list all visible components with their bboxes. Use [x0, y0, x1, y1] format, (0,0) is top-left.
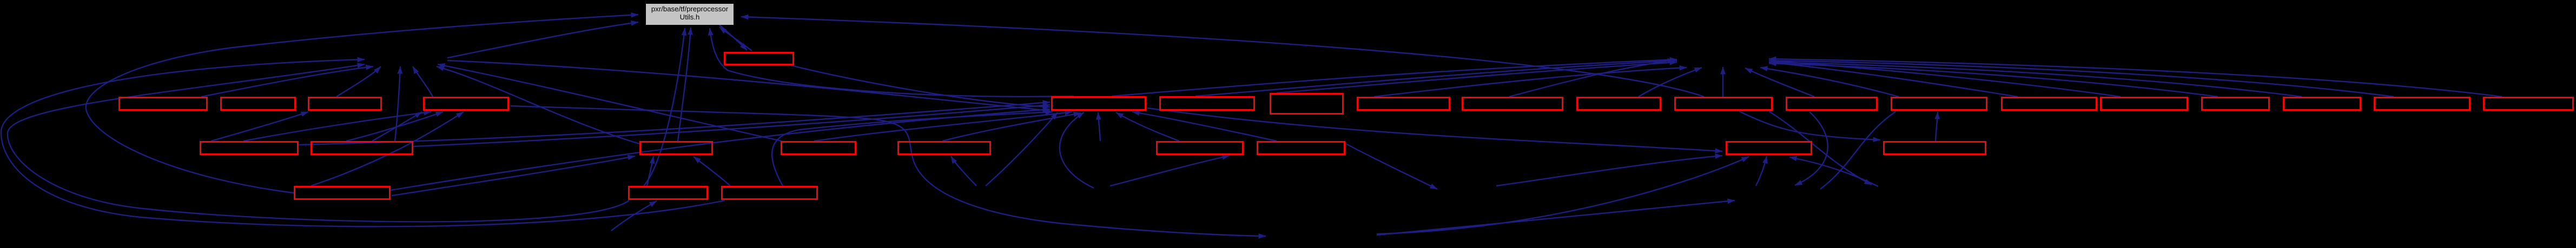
node R2e [899, 142, 990, 155]
node O [2101, 98, 2188, 110]
wire edge H8->R2h [1496, 156, 1722, 186]
node N [2002, 98, 2097, 110]
wire edge R2b->H1 [395, 66, 400, 141]
wire edge D->H1 [413, 66, 433, 97]
wire edge R2c->top [678, 28, 691, 141]
wire edge H5->H6 [1377, 200, 1735, 235]
wire edge H7->R2h [1789, 157, 1878, 186]
wire edge H6->R2h [1756, 156, 1767, 186]
wire edge E->R2h [1147, 108, 1722, 151]
node C [309, 98, 381, 110]
svg-text:Utils.h: Utils.h [680, 13, 700, 21]
node R2a [201, 142, 298, 155]
wire edge R2b->D [346, 112, 443, 141]
wire edge K->R2i [1739, 111, 1880, 140]
node B [221, 98, 295, 110]
node U1 pxr/base/tf/preprocessorUtils.h [646, 4, 734, 25]
wire edge M->arc [1820, 111, 1896, 189]
wire edge Q->H3 [1769, 62, 2302, 97]
wire edge R3b->H1 [8, 64, 629, 222]
node R3b [629, 187, 708, 199]
svg-text:pxr/base/tf/preprocessor: pxr/base/tf/preprocessor [651, 5, 729, 13]
wire edge R3b->R2c [647, 156, 653, 186]
node H [1358, 98, 1450, 110]
wire edge R2c->H1 [437, 66, 639, 144]
node Q [2284, 98, 2361, 110]
node R [2375, 98, 2470, 110]
wire edge C->H1 [336, 66, 381, 97]
node R2g [1258, 142, 1345, 155]
wire edge R2b->D2 [372, 112, 422, 141]
wire edge fl->R2c [392, 156, 635, 196]
node T [725, 53, 794, 65]
wire edge K->H3 [1722, 67, 1723, 97]
node D [424, 98, 508, 110]
wire edge P->H3 [1769, 63, 2218, 97]
wire edge R2d->H1 [438, 64, 782, 141]
wire edge L->H6 [1795, 112, 1828, 185]
node A [120, 98, 207, 110]
wire edge E->H3 [1112, 59, 1677, 96]
wire edge H10->E [1060, 112, 1094, 188]
node R2d [782, 142, 856, 155]
node F [1160, 97, 1254, 110]
node R2b [312, 142, 413, 155]
wire edge T->E [791, 65, 1050, 107]
node M [1892, 98, 1987, 110]
wire edge N->H3 [1769, 62, 2018, 97]
wire edge R3b->top [644, 28, 685, 186]
wire edge R3c->H1 [1, 59, 725, 226]
node R2f [1157, 142, 1243, 155]
wire edge L->H3 [1745, 68, 1814, 97]
wire edge top->T [719, 25, 747, 50]
node G [1271, 94, 1343, 114]
node R2i [1884, 142, 1986, 155]
wire edge R2f->E [1116, 112, 1179, 141]
wire edge R2a->E [299, 102, 1050, 145]
wire edge R->H3 [1769, 61, 2394, 97]
wire edge F->H3 [1195, 61, 1677, 96]
wire edge M->H3 [1760, 68, 1899, 97]
wire edge H1->E [447, 61, 1050, 111]
wire edge D->H5 [511, 106, 1266, 236]
node L [1787, 98, 1877, 110]
wire edge T->top [719, 27, 752, 51]
wire edge H2->E [1098, 112, 1100, 141]
node S [2484, 98, 2573, 110]
wire edge R2e->E [942, 113, 1081, 141]
node I [1463, 98, 1563, 110]
node K [1675, 98, 1772, 110]
wire edge R2g->H8 [1346, 144, 1437, 189]
node J [1577, 98, 1661, 110]
wire edge R3a->top [86, 15, 638, 193]
wire edge H4->E [986, 112, 1058, 186]
wire edge K->H7 [1769, 111, 1872, 185]
wire edge K->top [741, 17, 1704, 97]
wire edge R2i->M [1936, 112, 1938, 141]
wire edge R2b->E [413, 105, 1050, 146]
wire edge J->H3 [1639, 68, 1702, 97]
wire edge R2a->D [243, 112, 431, 141]
wire edge G->H3 [1277, 62, 1677, 93]
wire edge R3c->R2c [693, 157, 730, 186]
node R2h [1727, 142, 1812, 155]
wire edge E->top [710, 28, 1074, 97]
wire edge I->H3 [1509, 60, 1675, 97]
wire edge H10->R2f [1110, 156, 1230, 186]
wire edge H5->R2h [1377, 157, 1749, 234]
wire edge R3c->E [772, 112, 1053, 186]
node R2c [640, 142, 712, 155]
wire edge R3a->E [391, 109, 1050, 190]
node R3c [722, 187, 817, 199]
wire edge A->H1 [201, 66, 373, 97]
wire edge R2g->E [1132, 112, 1277, 141]
wire edge H->H3 [1374, 68, 1687, 97]
wire edge H1->top [447, 22, 638, 58]
node P [2202, 98, 2269, 110]
wire edge H4->R2e [951, 156, 976, 186]
wire edge R2d->E [814, 112, 1072, 141]
node E [1052, 97, 1146, 110]
wire edge S->H3 [1769, 59, 2502, 97]
wire edge O->H3 [1769, 61, 2121, 97]
wire edge R2a->C [211, 112, 308, 141]
wire edge R3a->D [311, 112, 464, 186]
node R3a [295, 187, 390, 199]
wire edge H9->R3b [611, 201, 657, 231]
